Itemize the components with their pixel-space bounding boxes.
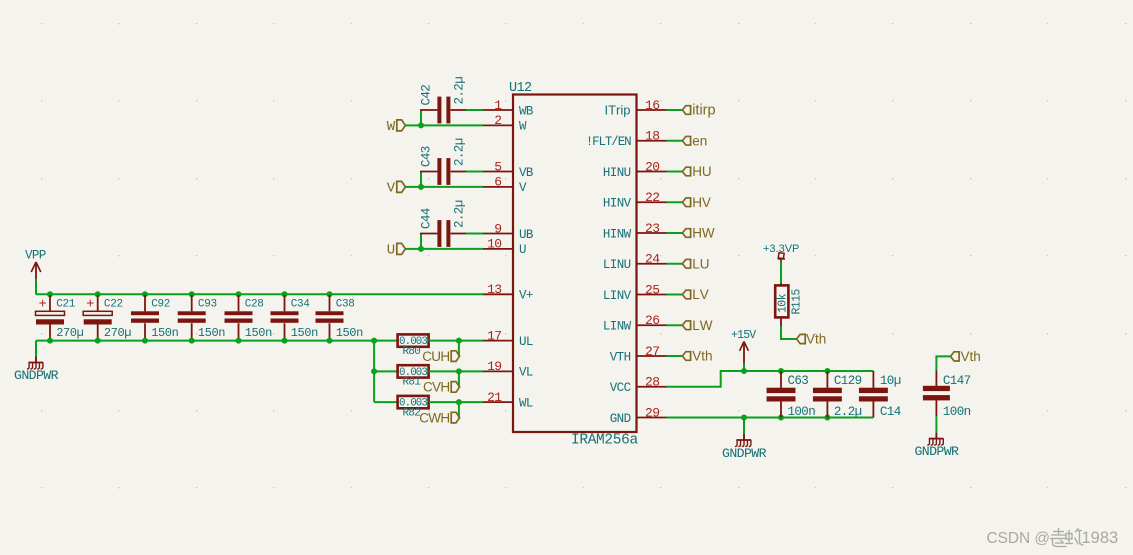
junction V+ rail at C28 xyxy=(236,291,242,297)
svg-text:C42: C42 xyxy=(420,85,434,106)
svg-text:2.2µ: 2.2µ xyxy=(452,77,466,105)
svg-text:Vth: Vth xyxy=(961,349,981,364)
resistor R115 10k xyxy=(775,283,803,326)
svg-text:U: U xyxy=(387,243,395,259)
svg-text:WL: WL xyxy=(519,396,533,410)
svg-text:W: W xyxy=(519,120,527,134)
svg-text:2.2µ: 2.2µ xyxy=(452,200,466,228)
wire pin 18 to en label xyxy=(667,140,683,142)
svg-text:28: 28 xyxy=(645,375,659,390)
svg-text:GNDPWR: GNDPWR xyxy=(914,444,959,459)
svg-text:16: 16 xyxy=(645,98,659,113)
svg-text:CVH: CVH xyxy=(423,380,449,395)
svg-text:C129: C129 xyxy=(834,374,862,388)
pin 23 (HINW) xyxy=(603,221,667,242)
svg-text:R82: R82 xyxy=(403,407,421,419)
svg-text:R81: R81 xyxy=(403,377,422,389)
svg-text:27: 27 xyxy=(645,344,659,359)
junction GND rail at C93 xyxy=(189,338,195,344)
hierarchical label Vth (C147) xyxy=(951,349,981,364)
svg-text:HINU: HINU xyxy=(603,166,631,180)
junction GND rail at C129 xyxy=(824,415,830,421)
capacitor C14 10µ xyxy=(859,371,901,419)
svg-text:+15V: +15V xyxy=(731,329,756,342)
wire pin 16 to itirp label xyxy=(667,109,683,111)
hierarchical label LV xyxy=(682,287,708,302)
wire C43 to pin 5 xyxy=(466,171,483,173)
svg-text:en: en xyxy=(692,133,707,148)
junction GND rail at C63 xyxy=(778,415,784,421)
wire VPP to V+ rail xyxy=(35,279,37,294)
junction at V node xyxy=(418,184,424,190)
svg-text:150n: 150n xyxy=(336,326,363,340)
svg-text:LINV: LINV xyxy=(603,289,632,303)
hierarchical label Vth (R115) xyxy=(797,332,827,347)
svg-text:1983: 1983 xyxy=(1082,529,1119,547)
svg-text:24: 24 xyxy=(645,252,660,267)
ground GNDPWR (right) xyxy=(914,433,959,459)
capacitor C44 2.2u xyxy=(420,200,467,247)
svg-text:HINW: HINW xyxy=(603,227,632,241)
hierarchical label itirp xyxy=(682,103,715,119)
svg-text:W: W xyxy=(387,119,396,135)
wire R115 to Vth label xyxy=(781,326,797,339)
wire R81 to junction xyxy=(429,370,459,372)
junction V+ rail at C21 xyxy=(47,291,53,297)
svg-text:GNDPWR: GNDPWR xyxy=(14,368,59,383)
wire pin 22 to HV label xyxy=(667,201,683,203)
hierarchical label en xyxy=(682,133,707,148)
wire drop to CWH label xyxy=(458,402,460,418)
junction GND rail at GNDPWR xyxy=(741,415,747,421)
hierarchical label Vth xyxy=(682,349,712,364)
svg-text:17: 17 xyxy=(487,328,501,343)
pin 28 (VCC) xyxy=(610,375,667,396)
watermark CSDN xyxy=(987,528,1119,547)
svg-text:5: 5 xyxy=(494,159,501,174)
pin 26 (LINW) xyxy=(603,313,667,334)
svg-text:+: + xyxy=(39,298,47,313)
wire pin 20 to HU label xyxy=(667,171,683,173)
svg-text:ITrip: ITrip xyxy=(605,102,631,117)
pin 27 (VTH) xyxy=(610,344,667,365)
wire U label to junction xyxy=(405,248,421,250)
junction V+ rail at C92 xyxy=(142,291,148,297)
hierarchical label CVH xyxy=(423,380,460,395)
svg-text:!FLT/EN: !FLT/EN xyxy=(586,135,631,149)
svg-text:100n: 100n xyxy=(943,405,971,419)
capacitor C22 270µ xyxy=(83,295,131,340)
svg-text:WB: WB xyxy=(519,104,534,118)
wire GNDPWR rail drop xyxy=(35,341,37,357)
svg-text:LV: LV xyxy=(692,287,709,302)
pin 20 (HINU) xyxy=(603,159,667,180)
svg-text:C43: C43 xyxy=(420,146,434,167)
hierarchical label HV xyxy=(682,195,711,210)
wire shunt bus to R81 xyxy=(374,370,397,372)
wire R82 to junction xyxy=(429,401,459,403)
resistor R81 0.003 xyxy=(398,365,429,389)
wire junction up to C43 xyxy=(420,172,422,187)
svg-text:V: V xyxy=(387,181,396,197)
wire C42 to pin 1 xyxy=(466,109,483,111)
hierarchical label V xyxy=(387,181,406,197)
wire drop to CVH label xyxy=(458,371,460,387)
junction at W node xyxy=(418,122,424,128)
hierarchical label CWH xyxy=(419,410,459,425)
pin 5 (VB) xyxy=(483,159,534,180)
junction V+ rail at C22 xyxy=(95,291,101,297)
wire pin 26 to LW label xyxy=(667,324,683,326)
capacitor C63 100n xyxy=(767,371,816,419)
svg-text:LINU: LINU xyxy=(603,258,631,272)
svg-text:GNDPWR: GNDPWR xyxy=(722,446,767,461)
svg-text:C63: C63 xyxy=(788,374,809,388)
svg-text:R115: R115 xyxy=(791,289,804,315)
svg-text:Vth: Vth xyxy=(692,349,712,364)
svg-text:HW: HW xyxy=(692,226,715,241)
svg-text:10µ: 10µ xyxy=(880,374,901,388)
ground GNDPWR (left) xyxy=(14,357,59,384)
pin 1 (WB) xyxy=(483,98,534,119)
svg-text:1: 1 xyxy=(494,98,502,113)
junction at U node xyxy=(418,246,424,252)
hierarchical label LW xyxy=(682,318,712,333)
pin 29 (GND) xyxy=(610,405,667,426)
svg-text:2: 2 xyxy=(494,113,501,128)
wire V label to junction xyxy=(405,186,421,188)
power flag +3.3VP xyxy=(763,243,799,263)
hierarchical label U xyxy=(387,243,406,259)
capacitor C38 150n xyxy=(316,295,364,340)
capacitor C147 100n xyxy=(923,371,971,419)
wire pin 24 to LU label xyxy=(667,263,683,265)
wire Vth label to C147 xyxy=(936,356,950,370)
wire C44 to pin 9 xyxy=(466,233,483,235)
svg-text:150n: 150n xyxy=(291,326,318,340)
pin 21 (WL) xyxy=(483,390,533,411)
svg-text:Vth: Vth xyxy=(806,332,826,347)
wire +3.3VP to R115 xyxy=(780,263,782,284)
hierarchical label W xyxy=(387,119,406,135)
svg-text:29: 29 xyxy=(645,405,659,420)
svg-text:2.2µ: 2.2µ xyxy=(834,405,862,419)
svg-text:9: 9 xyxy=(494,221,501,236)
junction shunt bus at R80 xyxy=(371,338,377,344)
pin 22 (HINV) xyxy=(603,190,667,211)
wire GNDPWR rail (bottom of cap bank) xyxy=(36,340,398,342)
svg-text:150n: 150n xyxy=(245,326,272,340)
svg-text:+: + xyxy=(86,298,94,313)
junction V+ rail at C34 xyxy=(282,291,288,297)
svg-text:C14: C14 xyxy=(880,405,901,419)
svg-text:itirp: itirp xyxy=(692,103,715,119)
svg-text:VB: VB xyxy=(519,166,534,180)
svg-text:C92: C92 xyxy=(151,299,170,311)
pin 19 (VL) xyxy=(483,359,533,380)
svg-text:R80: R80 xyxy=(403,346,421,358)
hierarchical label CUH xyxy=(422,349,459,364)
svg-text:VPP: VPP xyxy=(25,249,46,263)
wire C147 to ground xyxy=(935,416,937,432)
wire drop to CUH label xyxy=(458,341,460,357)
svg-text:18: 18 xyxy=(645,129,659,144)
svg-text:6: 6 xyxy=(494,175,501,190)
svg-text:C34: C34 xyxy=(291,299,311,311)
wire GND pin 29 rail xyxy=(667,417,874,419)
junction GND rail at C34 xyxy=(282,338,288,344)
svg-text:GND: GND xyxy=(610,412,631,426)
junction CVH node xyxy=(456,368,462,374)
junction GND rail at C21 xyxy=(47,338,53,344)
capacitor C93 150n xyxy=(178,295,226,340)
svg-text:21: 21 xyxy=(487,390,502,405)
wire pin 25 to LV label xyxy=(667,294,683,296)
svg-text:CSDN @: CSDN @ xyxy=(987,530,1051,547)
resistor R82 0.003 xyxy=(398,396,429,420)
hierarchical label LU xyxy=(682,256,709,271)
pin 18 (!FLT/EN) xyxy=(586,129,667,150)
capacitor C129 2.2µ xyxy=(813,371,862,419)
svg-text:CUH: CUH xyxy=(422,349,449,364)
svg-text:150n: 150n xyxy=(151,326,178,340)
capacitor C42 2.2u xyxy=(420,77,467,124)
wire junction up to C44 xyxy=(420,234,422,249)
svg-text:20: 20 xyxy=(645,159,659,174)
svg-text:100n: 100n xyxy=(788,405,816,419)
resistor R80 0.003 xyxy=(398,334,429,358)
svg-text:13: 13 xyxy=(487,282,501,297)
junction GND rail at C22 xyxy=(95,338,101,344)
wire W label to pin 2 xyxy=(421,124,483,126)
hierarchical label HW xyxy=(682,226,715,241)
svg-text:10k: 10k xyxy=(776,293,789,313)
wire VCC pin 28 to rail xyxy=(667,371,874,387)
junction CWH node xyxy=(456,399,462,405)
capacitor C34 150n xyxy=(271,295,319,340)
svg-text:V: V xyxy=(519,181,527,195)
svg-text:2.2µ: 2.2µ xyxy=(452,138,466,166)
junction V+ rail at C93 xyxy=(189,291,195,297)
svg-text:C22: C22 xyxy=(104,299,123,311)
svg-text:UL: UL xyxy=(519,335,533,349)
wire pin 23 to HW label xyxy=(667,232,683,234)
wire R82 junction to pin 21 xyxy=(459,401,483,403)
hierarchical label HU xyxy=(682,164,711,179)
svg-text:150n: 150n xyxy=(198,326,225,340)
svg-text:V+: V+ xyxy=(519,289,533,303)
svg-text:LU: LU xyxy=(692,256,709,271)
pin 17 (UL) xyxy=(483,328,533,349)
junction GND rail at C92 xyxy=(142,338,148,344)
power flag +15V xyxy=(731,329,756,363)
svg-text:VL: VL xyxy=(519,366,533,380)
capacitor C92 150n xyxy=(131,295,179,340)
svg-text:IRAM256a: IRAM256a xyxy=(571,433,638,449)
wire R80 junction to pin 17 xyxy=(459,340,483,342)
pin 6 (V) xyxy=(483,175,527,196)
pin 16 (ITrip) xyxy=(605,98,667,118)
pin 2 (W) xyxy=(483,113,527,134)
junction CUH node xyxy=(456,338,462,344)
wire R81 junction to pin 19 xyxy=(459,370,483,372)
junction GND rail at C28 xyxy=(236,338,242,344)
svg-text:U12: U12 xyxy=(509,81,532,96)
svg-text:C21: C21 xyxy=(56,299,76,311)
junction VCC rail at +15V xyxy=(741,368,747,374)
wire +15V to VCC rail xyxy=(743,363,745,371)
svg-text:C93: C93 xyxy=(198,299,217,311)
svg-text:22: 22 xyxy=(645,190,659,205)
wire shunt bus to R82 xyxy=(374,401,397,403)
junction VCC rail at C63 xyxy=(778,368,784,374)
svg-text:VTH: VTH xyxy=(610,350,631,364)
wire shunt bus vertical xyxy=(373,341,375,403)
power flag VPP xyxy=(25,249,46,280)
svg-text:26: 26 xyxy=(645,313,659,328)
junction VCC rail at C129 xyxy=(824,368,830,374)
wire GND rail to ground xyxy=(743,418,745,435)
svg-text:LW: LW xyxy=(692,318,713,333)
svg-text:270µ: 270µ xyxy=(56,326,83,340)
svg-text:270µ: 270µ xyxy=(104,326,131,340)
svg-text:C28: C28 xyxy=(245,299,264,311)
svg-text:C147: C147 xyxy=(943,374,971,388)
pin 25 (LINV) xyxy=(603,282,667,303)
svg-text:C44: C44 xyxy=(420,208,434,229)
ground GNDPWR (middle) xyxy=(722,434,767,461)
pin 13 (V+) xyxy=(483,282,533,303)
wire U label to pin 10 xyxy=(421,248,483,250)
svg-text:LINW: LINW xyxy=(603,320,632,334)
wire V label to pin 6 xyxy=(421,186,483,188)
wire W label to junction xyxy=(405,124,421,126)
svg-text:23: 23 xyxy=(645,221,659,236)
svg-text:25: 25 xyxy=(645,282,659,297)
capacitor C43 2.2u xyxy=(420,138,467,185)
op-amp U1 — IC U12 IRAM256a body xyxy=(513,95,637,433)
pin 9 (UB) xyxy=(483,221,534,242)
svg-text:C38: C38 xyxy=(336,299,355,311)
wire pin 27 to Vth label xyxy=(667,355,683,357)
wire V+ rail (VPP bus to pin 13) xyxy=(36,293,483,295)
junction GND rail at C38 xyxy=(327,338,333,344)
svg-text:10: 10 xyxy=(487,237,501,252)
capacitor C28 150n xyxy=(225,295,273,340)
capacitor C21 270µ xyxy=(36,295,84,340)
svg-text:HU: HU xyxy=(692,164,712,179)
wire junction up to C42 xyxy=(420,110,422,125)
svg-text:CWH: CWH xyxy=(419,410,449,425)
svg-text:HINV: HINV xyxy=(603,197,632,211)
svg-text:UB: UB xyxy=(519,228,534,242)
svg-text:19: 19 xyxy=(487,359,501,374)
svg-text:U: U xyxy=(519,243,526,257)
pin 24 (LINU) xyxy=(603,252,667,273)
svg-text:VCC: VCC xyxy=(610,381,631,395)
svg-text:HV: HV xyxy=(692,195,711,210)
pin 10 (U) xyxy=(483,237,526,258)
junction V+ rail at C38 xyxy=(327,291,333,297)
wire R80 to junction xyxy=(429,340,459,342)
junction shunt bus at R81 xyxy=(371,368,377,374)
